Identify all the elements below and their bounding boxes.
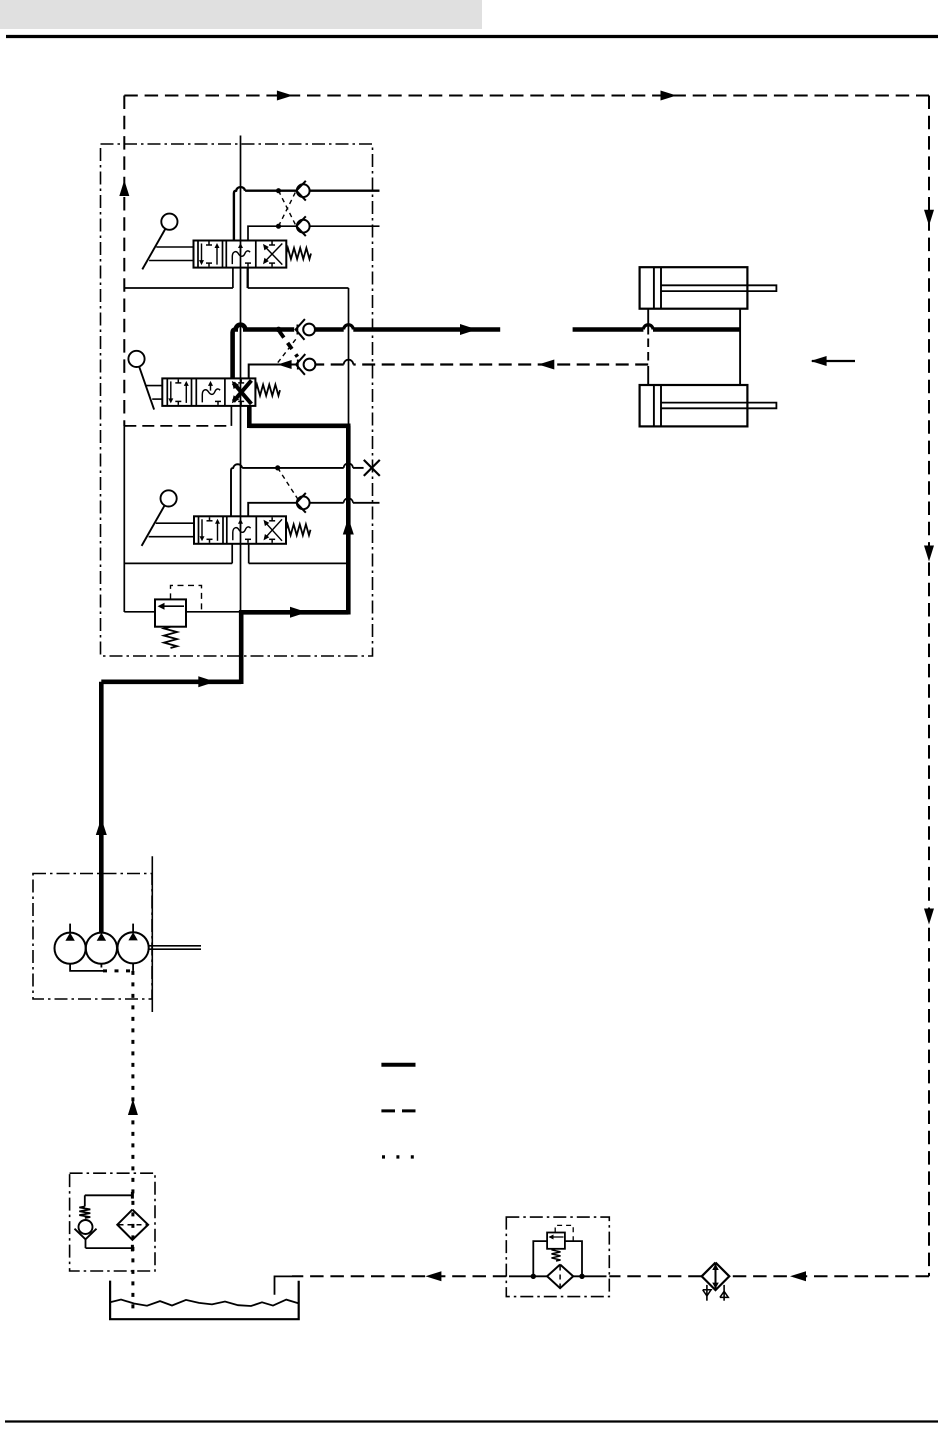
directional valve V3 (bottom) body — [194, 516, 286, 544]
wire: valve3 tank drop — [231, 544, 233, 564]
node: V1 pilot junction upper — [276, 189, 280, 193]
node: filter bypass right junction — [580, 1274, 584, 1278]
wire: valve V3 B line (to check valve) — [248, 498, 379, 516]
cylinder C1 lower piston — [654, 385, 661, 426]
wire: dashed bottom return run (cooler to filter) — [609, 1275, 701, 1277]
wire: left return riser solid (x=124.3) — [123, 426, 125, 612]
valve V3 spring — [286, 524, 311, 535]
arrow down on right downcomer (middle) — [924, 546, 934, 562]
arrow right on top dashed run (right) — [661, 91, 677, 101]
pump P1 outflow triangle — [65, 933, 74, 941]
return filter F2 element (dashed) — [559, 1266, 561, 1288]
return filter enclosure (dash-dot) — [506, 1217, 609, 1297]
wire: valve V1 B line (to check valve) — [248, 226, 380, 240]
wire: valve1 B line right segment (y=288) — [248, 287, 349, 289]
relief valve RV1 pilot dashed — [171, 585, 202, 611]
check valve CV1 (valve1 upper) — [296, 181, 309, 201]
bypass relief RV2 spring — [552, 1249, 561, 1261]
arrow right on supply run — [198, 676, 215, 687]
tank fluid level (wavy) — [110, 1300, 299, 1307]
wire: bypass relief left riser — [533, 1241, 547, 1276]
wire: cylinder return dashed (y=364.5) — [316, 360, 648, 365]
wire: valve V3 A line (to plug) — [231, 463, 364, 516]
wire: valve1 tank drop — [232, 268, 234, 288]
directional valve V1 (top) body — [194, 241, 287, 268]
arrow up on suction riser — [128, 1099, 138, 1115]
wire: supply run to valve block (thick) — [101, 679, 241, 684]
wire: bypass top link — [85, 1192, 133, 1199]
wire: valve2 A riser and work line (thick) — [233, 325, 501, 379]
wire: supply feed to valve2 (thick, y=425.8) — [249, 423, 350, 428]
wire: pump P1 suction — [70, 964, 103, 971]
wire: supply riser into block (thick) — [239, 610, 244, 684]
wire: pump P3 suction stub — [132, 963, 134, 971]
wire: gallery vertical x=348.5 upper (thin) — [348, 288, 350, 426]
wire: bypass bottom link — [86, 1239, 133, 1251]
valve V1 spring — [286, 248, 311, 259]
tank T1 — [110, 1281, 299, 1320]
cylinder manifold left wall — [647, 309, 649, 385]
pump P3 circle — [118, 932, 149, 963]
wire: V2 pilot dashed thick — [280, 332, 298, 357]
wire: valve1 B drop — [247, 268, 249, 288]
arrow down on right downcomer (lower) — [924, 909, 934, 925]
page header gray bar — [0, 0, 482, 29]
arrow left on cylinder return (outer) — [538, 360, 554, 370]
pump P1 circle — [55, 933, 86, 964]
wire: suction dotted riser — [131, 971, 134, 1313]
arrow up on supply riser x=348.3 — [343, 518, 354, 535]
wire: relief output to supply node — [186, 611, 241, 613]
pilot check valve CV4 (return line) — [296, 354, 315, 375]
wire: V3 pilot dashed — [278, 468, 298, 499]
cooler HX1 arrowhead down — [712, 1283, 719, 1289]
bypass relief RV2 body — [547, 1233, 565, 1249]
suction filter F1 element (dashed) — [119, 1224, 147, 1226]
wire: V1 pilot cross dashed b — [279, 191, 297, 227]
wire: valve3 B line right segment (y=563.4) — [249, 562, 349, 564]
check valve CV2 (valve1 lower) — [296, 216, 309, 236]
valve block enclosure (dash-dot) — [101, 144, 373, 656]
cooler HX1 flow line — [715, 1264, 717, 1289]
wire: work line hose segment to cylinder (thick) — [573, 325, 741, 330]
pump enclosure (dash-dot) — [33, 874, 152, 1000]
wire: supply branch y=612.3 (thick) — [239, 610, 348, 615]
relief valve RV1 spring — [164, 627, 177, 648]
wire: V1 pilot cross dashed a — [279, 191, 297, 227]
plug X (blocked port) — [364, 460, 380, 476]
node: filter bypass left junction — [531, 1274, 535, 1278]
cooler coolant leg left — [703, 1285, 711, 1301]
engine interface line — [151, 856, 153, 1012]
wire: bypass relief right riser — [565, 1241, 582, 1276]
pump P2 circle — [86, 933, 117, 964]
wire: valve2 P drop (thick) — [247, 406, 252, 428]
cylinder C1 lower rod — [661, 403, 776, 409]
wire: pump discharge riser (thick) — [99, 682, 104, 933]
legend solid line sample — [381, 1063, 415, 1067]
bypass check valve seat — [75, 1229, 97, 1240]
wire: dashed return riser left (x=124) — [123, 96, 125, 427]
pump drive shaft (double line) — [149, 946, 201, 949]
bypass check spring — [79, 1207, 90, 1219]
arrow right on supply branch — [290, 607, 307, 618]
valve V2 spring — [255, 385, 280, 396]
footer rule — [5, 1420, 938, 1422]
pilot check valve CV3 (work line) — [296, 319, 315, 340]
arrow left on bottom return (left) — [425, 1271, 441, 1281]
wire: valve1 tank line left segment (y=288) — [124, 287, 233, 289]
bypass check valve circle — [79, 1220, 93, 1234]
cylinder C1 upper piston — [654, 267, 661, 309]
wire: dashed return top run — [124, 95, 929, 97]
cooler coolant leg right — [720, 1285, 728, 1301]
header rule — [6, 35, 938, 38]
relief valve RV1 body — [155, 599, 186, 626]
arrow up on pump riser — [96, 818, 107, 835]
cooler HX1 arrowhead up — [712, 1264, 719, 1270]
arrow up on left dashed riser — [119, 180, 129, 196]
node: V1 pilot junction lower — [276, 224, 280, 228]
valve V1 lever actuator — [142, 214, 193, 270]
wire: return into valve2 B port — [249, 365, 296, 379]
wire: V2 pilot dashed thin — [278, 337, 298, 363]
valve V3 lever actuator — [142, 490, 194, 546]
arrow left on bottom return (right) — [790, 1271, 806, 1281]
wire: return line through filter (left) — [509, 1275, 547, 1277]
check valve CV5 (valve3) — [296, 493, 309, 513]
valve V2 lever actuator — [128, 351, 162, 410]
arrow down on right downcomer (upper) — [924, 210, 934, 226]
cylinder C1 lower barrel — [640, 385, 748, 426]
cylinder manifold right wall — [739, 309, 741, 385]
cylinder C1 upper rod — [661, 285, 776, 291]
wire: valve V1 A line (to check valve) — [234, 187, 380, 240]
pump P2 outflow triangle — [97, 933, 106, 941]
cooler HX1 diamond — [702, 1263, 730, 1291]
legend dotted line sample — [382, 1155, 414, 1158]
arrow right on work line — [460, 324, 477, 335]
wire: valve3 B drop — [248, 544, 250, 564]
wire: relief input (from return riser) — [124, 611, 155, 613]
bypass relief RV2 internal arrow — [549, 1235, 564, 1240]
arrow left on cylinder return (inner) — [278, 360, 292, 369]
arrow left (external force on cylinder) — [811, 356, 855, 366]
legend dashed line sample — [381, 1109, 415, 1112]
wire: dashed bottom return run (filter to tank) — [292, 1275, 506, 1277]
wire: suction dotted horizontal — [103, 969, 133, 972]
wire: pump P1 port stub — [69, 924, 71, 933]
wire: valve3 tank line left segment (y=563.4) — [124, 562, 232, 564]
cylinder C1 upper barrel — [640, 267, 748, 309]
wire: valve2 drain drop — [230, 406, 232, 426]
return filter F2 diamond — [547, 1265, 573, 1289]
wire: return line through filter (right) — [573, 1275, 606, 1277]
suction filter F1 diamond — [117, 1210, 148, 1240]
wire: pressure gallery vertical (x=240.5) — [240, 136, 242, 613]
wire: supply riser x=348.3 (thick) — [346, 426, 351, 615]
wire: return drop into tank — [275, 1276, 293, 1294]
wire: pump P2 suction stub — [100, 964, 102, 968]
relief valve RV1 internal arrow — [158, 603, 185, 610]
wire: valve2 drain dashed (y=425.9) — [124, 425, 231, 427]
node: V2 work junction — [276, 327, 281, 332]
arrow right on top dashed run (left) — [277, 91, 293, 101]
wire: bypass left drop — [84, 1195, 86, 1206]
wire: pump P3 port stub — [132, 924, 134, 933]
node: V3 pilot junction — [276, 466, 280, 470]
wire: dashed bottom return run (right of cooler) — [729, 1275, 929, 1277]
directional valve V2 (middle, actuated) body — [162, 378, 255, 406]
wire: dashed return right downcomer — [928, 96, 930, 1277]
suction filter enclosure (dash-dot) — [70, 1173, 155, 1271]
bypass relief RV2 pilot dashed — [555, 1225, 573, 1240]
pump P3 outflow triangle — [128, 932, 137, 940]
